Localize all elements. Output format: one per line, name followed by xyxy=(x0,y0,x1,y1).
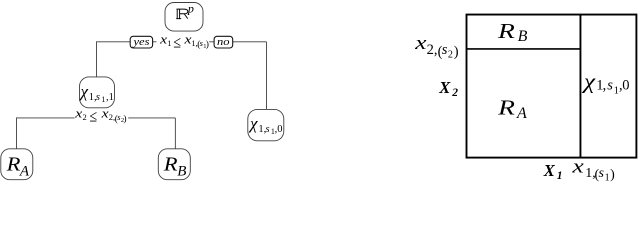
svg-text:B: B xyxy=(518,28,528,45)
edge left elbow down to chi_{1,s1,1} xyxy=(95,42,97,77)
svg-text:R: R xyxy=(497,19,515,43)
svg-text:X: X xyxy=(438,78,451,97)
node chi_{1,s1,1} box xyxy=(80,77,115,108)
svg-text:x: x xyxy=(571,157,584,178)
region label RB xyxy=(497,19,528,45)
split label 1 background xyxy=(156,36,209,49)
svg-text:1: 1 xyxy=(605,172,610,182)
node root box xyxy=(165,3,203,32)
node leaf RB box xyxy=(158,149,190,180)
svg-text:≤: ≤ xyxy=(89,107,97,126)
node chi_{1,s1,0} label xyxy=(248,114,282,136)
svg-text:A: A xyxy=(19,164,30,180)
node root label: blackboard-bold R xyxy=(176,9,188,18)
svg-text:2: 2 xyxy=(451,87,458,99)
axis label bold X2 xyxy=(438,78,458,99)
svg-text:): ) xyxy=(454,44,459,60)
axis label bold X1 xyxy=(543,161,563,182)
svg-text:2,: 2, xyxy=(427,42,438,58)
svg-text:R: R xyxy=(497,95,515,119)
svg-text:1: 1 xyxy=(167,38,171,48)
node leaf RA box xyxy=(1,149,33,180)
split label 1: x1 <= x1,(s1) xyxy=(159,32,209,51)
split label 2: x2 <= x2,(s2) xyxy=(74,106,127,125)
svg-text:x: x xyxy=(414,33,427,54)
partition horizontal split at x2,(s2) xyxy=(467,48,581,50)
svg-text:≤: ≤ xyxy=(173,32,181,51)
leaf RA label xyxy=(5,153,29,179)
edge down to leaf RB xyxy=(174,118,176,149)
svg-text:,1: ,1 xyxy=(106,92,114,103)
no box xyxy=(214,36,233,48)
region label chi_{1,s1,0} xyxy=(582,69,630,97)
partition vertical split at x1,(s1) xyxy=(579,15,581,158)
svg-text:s: s xyxy=(607,78,613,94)
svg-text:2: 2 xyxy=(448,50,453,61)
axis label x1,(s1) xyxy=(571,157,615,184)
svg-text:): ) xyxy=(123,113,126,124)
svg-text:s: s xyxy=(96,92,100,103)
svg-text:χ: χ xyxy=(79,82,89,101)
svg-text:s: s xyxy=(442,42,448,58)
svg-text:p: p xyxy=(187,2,194,16)
svg-text:s: s xyxy=(599,166,605,181)
svg-text:χ: χ xyxy=(582,69,597,94)
edge row1 (root split horizontal) xyxy=(96,41,267,43)
svg-text:R: R xyxy=(5,153,20,175)
svg-text:χ: χ xyxy=(248,114,258,133)
edge down to leaf RA xyxy=(15,118,17,149)
svg-text:): ) xyxy=(206,39,209,50)
svg-text:A: A xyxy=(516,105,527,122)
svg-text:): ) xyxy=(610,168,615,183)
leaf RB label xyxy=(163,153,187,179)
svg-text:1: 1 xyxy=(557,170,563,182)
svg-text:1: 1 xyxy=(101,95,105,104)
svg-text:yes: yes xyxy=(132,37,149,48)
svg-text:0: 0 xyxy=(622,78,629,94)
svg-text:B: B xyxy=(177,164,186,180)
svg-text:,: , xyxy=(603,78,607,94)
edge right elbow down to chi_{1,s1,0} xyxy=(265,42,267,110)
split label 2 background xyxy=(75,111,129,124)
partition square outer box xyxy=(467,15,637,158)
svg-text:2: 2 xyxy=(83,112,87,122)
svg-text:R: R xyxy=(163,153,178,175)
node chi_{1,s1,1} label xyxy=(79,82,114,104)
svg-text:no: no xyxy=(217,37,230,48)
edge row2 (second split horizontal) xyxy=(16,117,175,119)
svg-text:,0: ,0 xyxy=(275,124,283,135)
axis label x2,(s2) xyxy=(414,33,459,61)
yes box xyxy=(130,36,152,48)
svg-text:X: X xyxy=(543,161,556,180)
svg-text:s: s xyxy=(266,124,270,135)
node chi_{1,s1,0} box xyxy=(248,109,284,140)
region label RA xyxy=(497,95,527,122)
